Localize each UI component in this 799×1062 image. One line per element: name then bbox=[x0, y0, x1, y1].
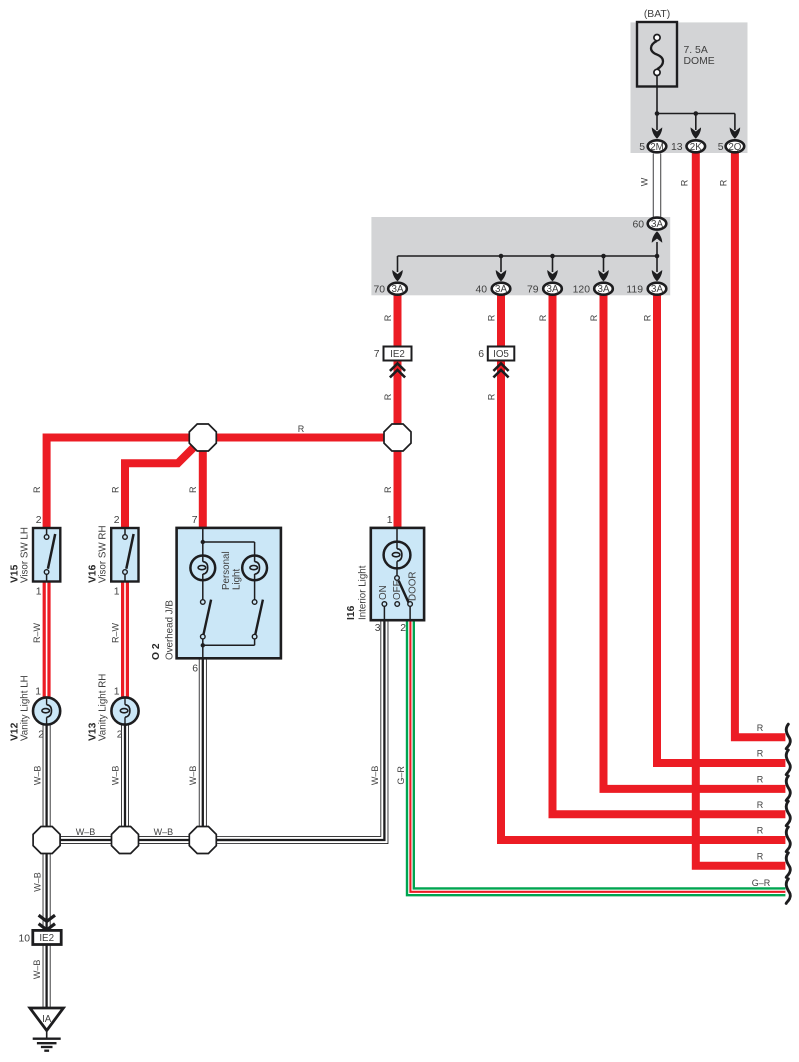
svg-text:5: 5 bbox=[639, 142, 645, 153]
svg-text:Visor SW LH: Visor SW LH bbox=[20, 527, 31, 583]
svg-text:(BAT): (BAT) bbox=[644, 9, 670, 20]
wire R: IE2 to interior light pin1 bbox=[394, 361, 402, 530]
junction dot 120 bbox=[601, 254, 606, 259]
connector 2Q bbox=[726, 140, 745, 152]
svg-text:1: 1 bbox=[387, 515, 393, 526]
svg-text:7: 7 bbox=[374, 349, 380, 360]
svg-text:Personal: Personal bbox=[221, 551, 232, 590]
node: octagon junction ground 3 bbox=[189, 827, 216, 854]
svg-text:13: 13 bbox=[671, 142, 683, 153]
svg-text:1: 1 bbox=[36, 587, 42, 598]
wire R: IO5 down and right bbox=[501, 361, 785, 841]
svg-text:2Q: 2Q bbox=[728, 142, 741, 153]
svg-text:IA: IA bbox=[42, 1014, 52, 1025]
wire: stem to 2Q bbox=[734, 114, 736, 131]
wire G-R: interior light pin2 down and right bbox=[410, 620, 785, 892]
svg-text:7. 5A: 7. 5A bbox=[684, 45, 708, 56]
connector IO5 bbox=[488, 347, 515, 361]
svg-text:3A: 3A bbox=[651, 219, 663, 230]
svg-text:R: R bbox=[538, 314, 548, 321]
wire R: visor SW RH branch bbox=[125, 448, 194, 530]
svg-text:3A: 3A bbox=[651, 284, 663, 295]
chevrons IE2 bbox=[390, 364, 405, 378]
svg-text:R: R bbox=[383, 393, 393, 400]
svg-text:R: R bbox=[110, 486, 120, 493]
ground IA bbox=[30, 1008, 64, 1051]
svg-text:R: R bbox=[298, 424, 305, 434]
svg-text:2: 2 bbox=[400, 623, 406, 634]
svg-text:IE2: IE2 bbox=[39, 933, 54, 944]
svg-text:Vanity Light RH: Vanity Light RH bbox=[98, 674, 109, 741]
svg-text:O 2: O 2 bbox=[151, 643, 162, 660]
wire: stem to 2K bbox=[695, 114, 697, 131]
svg-text:R: R bbox=[383, 486, 393, 493]
wire R: 120 3A down and right bbox=[604, 295, 786, 789]
junction dot above 2K bbox=[694, 111, 699, 116]
wire R-W: visor SW LH to vanity light LH bbox=[43, 582, 51, 698]
svg-text:W–B: W–B bbox=[188, 766, 198, 786]
svg-text:R: R bbox=[718, 179, 728, 186]
svg-text:R: R bbox=[757, 800, 764, 810]
svg-text:IO5: IO5 bbox=[493, 349, 509, 360]
chevrons IO5 bbox=[493, 364, 508, 378]
wire R: 40 3A to IO5 bbox=[497, 295, 505, 347]
svg-text:R–W: R–W bbox=[110, 622, 120, 643]
svg-text:70: 70 bbox=[373, 285, 385, 296]
svg-text:R: R bbox=[757, 826, 764, 836]
svg-text:3: 3 bbox=[375, 623, 381, 634]
svg-text:7: 7 bbox=[192, 515, 198, 526]
svg-text:120: 120 bbox=[573, 285, 591, 296]
arrow into 79 3A bbox=[547, 270, 558, 281]
connector 119 3A bbox=[648, 283, 667, 295]
switch V16 Visor SW RH bbox=[111, 528, 138, 582]
svg-text:1: 1 bbox=[114, 587, 120, 598]
svg-text:R: R bbox=[487, 314, 497, 321]
fuse 7.5A DOME bbox=[637, 22, 677, 87]
svg-text:1: 1 bbox=[114, 687, 120, 698]
stem corner to 70 bbox=[397, 256, 399, 272]
arrow into 2Q bbox=[730, 127, 741, 138]
continuation squiggles right edge bbox=[786, 724, 790, 749]
svg-text:2: 2 bbox=[38, 730, 44, 741]
junction dot above 2M bbox=[655, 111, 660, 116]
connector 79 3A bbox=[543, 283, 562, 295]
stem to 40 bbox=[500, 256, 502, 272]
svg-text:W–B: W–B bbox=[32, 960, 42, 980]
svg-text:R: R bbox=[679, 179, 689, 186]
wires W-B: ground network bbox=[47, 620, 385, 1008]
chevrons above IE2 bottom bbox=[39, 915, 55, 930]
stem to 79 bbox=[552, 256, 554, 272]
svg-text:IE2: IE2 bbox=[390, 349, 405, 360]
interior light I16 bbox=[371, 528, 424, 620]
svg-text:R: R bbox=[757, 749, 764, 759]
svg-text:2K: 2K bbox=[690, 142, 702, 153]
svg-text:Interior Light: Interior Light bbox=[358, 565, 369, 620]
connector 120 3A bbox=[594, 283, 613, 295]
arrow into 120 3A bbox=[598, 270, 609, 281]
node: octagon junction at interior light bbox=[384, 424, 411, 451]
svg-text:W–B: W–B bbox=[76, 827, 96, 837]
svg-text:OFF: OFF bbox=[392, 580, 403, 600]
svg-text:2: 2 bbox=[117, 730, 123, 741]
svg-text:5: 5 bbox=[718, 142, 724, 153]
svg-text:W–B: W–B bbox=[370, 766, 380, 786]
svg-text:3A: 3A bbox=[547, 284, 559, 295]
svg-text:40: 40 bbox=[475, 285, 487, 296]
svg-text:6: 6 bbox=[478, 349, 484, 360]
arrow into 2M bbox=[652, 127, 663, 138]
wire R: 70 3A to IE2 bbox=[394, 295, 402, 347]
svg-text:R: R bbox=[383, 314, 393, 321]
svg-text:79: 79 bbox=[527, 285, 539, 296]
wire R: 2Q down and right bbox=[735, 153, 786, 737]
svg-text:119: 119 bbox=[626, 285, 643, 296]
svg-text:R: R bbox=[757, 852, 764, 862]
connector 60 3A bbox=[648, 218, 667, 230]
svg-text:R: R bbox=[188, 486, 198, 493]
wire: junction horizontal to 2K 2Q bbox=[657, 113, 735, 115]
svg-text:6: 6 bbox=[192, 664, 198, 675]
svg-text:W–B: W–B bbox=[33, 872, 43, 892]
svg-text:Vanity Light LH: Vanity Light LH bbox=[20, 675, 31, 741]
node: octagon junction main bbox=[189, 424, 216, 451]
svg-text:ON: ON bbox=[378, 585, 389, 600]
wire R: octagon to octagon bbox=[203, 434, 398, 442]
svg-text:10: 10 bbox=[18, 934, 30, 945]
svg-text:DOME: DOME bbox=[684, 56, 715, 67]
wire R: 79 3A down and right bbox=[553, 295, 786, 814]
junction block shading (top battery box) bbox=[631, 22, 748, 153]
svg-text:2: 2 bbox=[114, 515, 120, 526]
connector 70 3A bbox=[388, 283, 407, 295]
svg-text:I16: I16 bbox=[346, 605, 357, 620]
svg-text:G–R: G–R bbox=[396, 766, 406, 785]
svg-text:G–R: G–R bbox=[752, 878, 771, 888]
node: octagon junction ground 2 bbox=[112, 827, 139, 854]
svg-text:R: R bbox=[32, 486, 42, 493]
svg-text:R: R bbox=[589, 314, 599, 321]
junction dot 119 bbox=[655, 254, 660, 259]
connector 40 3A bbox=[492, 283, 511, 295]
svg-text:R: R bbox=[757, 775, 764, 785]
svg-text:60: 60 bbox=[632, 220, 644, 231]
svg-text:W–B: W–B bbox=[110, 766, 120, 786]
wire: fuse to junction node bbox=[656, 76, 658, 131]
vanity light V12 bbox=[33, 697, 60, 724]
junction dot 79 bbox=[550, 254, 555, 259]
stem up to 60 bbox=[656, 242, 658, 256]
svg-text:Overhead J/B: Overhead J/B bbox=[165, 600, 176, 660]
arrow up into 60 3A bbox=[652, 231, 663, 242]
wire R: visor SW LH branch bbox=[47, 438, 203, 530]
svg-text:R–W: R–W bbox=[32, 622, 42, 643]
wire W: 2M to 60 3A bbox=[653, 154, 661, 218]
wire R-W: visor SW RH to vanity light RH bbox=[121, 582, 129, 698]
arrow into 40 3A bbox=[496, 270, 507, 281]
connector 2M bbox=[648, 140, 667, 152]
svg-text:Visor SW RH: Visor SW RH bbox=[98, 525, 109, 583]
svg-text:3A: 3A bbox=[495, 284, 507, 295]
svg-text:Light: Light bbox=[232, 568, 243, 590]
stem to 119 bbox=[656, 256, 658, 272]
svg-text:W–B: W–B bbox=[154, 827, 174, 837]
vanity light V13 bbox=[111, 697, 138, 724]
overhead J/B O2 bbox=[177, 528, 281, 658]
svg-text:DOOR: DOOR bbox=[408, 572, 419, 601]
node: octagon junction ground 1 bbox=[33, 827, 60, 854]
arrow into 2K bbox=[691, 127, 702, 138]
svg-text:W: W bbox=[639, 177, 649, 186]
switch V15 Visor SW LH bbox=[33, 528, 60, 582]
wire R: 119 3A down and right bbox=[657, 295, 785, 763]
svg-text:3A: 3A bbox=[598, 284, 610, 295]
arrow into 119 3A bbox=[652, 270, 663, 281]
wire R: 2K down and right bbox=[696, 153, 786, 866]
svg-text:R: R bbox=[487, 393, 497, 400]
connector IE2 top bbox=[384, 347, 412, 361]
svg-text:R: R bbox=[757, 723, 764, 733]
svg-text:R: R bbox=[643, 314, 653, 321]
band2 horizontal wire bbox=[398, 255, 658, 257]
connector IE2 bottom bbox=[33, 930, 61, 944]
stem to 120 bbox=[603, 256, 605, 272]
svg-text:2M: 2M bbox=[650, 142, 664, 153]
junction dot 40 bbox=[499, 254, 504, 259]
arrow into 70 3A bbox=[392, 270, 403, 281]
wire R: octagon to overhead JB pin7 bbox=[199, 449, 207, 530]
connector 2K bbox=[687, 140, 706, 152]
svg-text:3A: 3A bbox=[392, 284, 404, 295]
svg-text:2: 2 bbox=[36, 515, 42, 526]
junction block shading (3A connector band) bbox=[371, 217, 670, 295]
svg-text:W–B: W–B bbox=[33, 766, 43, 786]
svg-text:1: 1 bbox=[35, 687, 41, 698]
